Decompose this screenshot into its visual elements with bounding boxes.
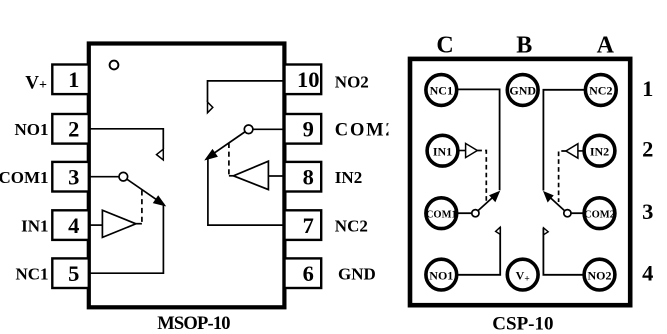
svg-text:4: 4 <box>68 213 79 238</box>
svg-text:A: A <box>597 32 615 58</box>
COM1 pole circle (CSP) <box>472 210 479 217</box>
wire COM1 ball to pole <box>458 212 472 214</box>
NO1 contact (open triangle, CSP) <box>496 227 501 234</box>
package body MSOP-10 <box>89 44 285 308</box>
ball NC1 <box>426 75 457 106</box>
svg-text:9: 9 <box>303 117 314 142</box>
ball NO1 <box>426 259 457 290</box>
svg-text:GND: GND <box>338 265 376 284</box>
package body CSP-10 <box>410 59 630 305</box>
svg-text:1: 1 <box>642 76 653 101</box>
wire pin3 to COM1 pole <box>89 176 119 178</box>
wire NC2 ball to switch <box>543 90 584 191</box>
svg-text:GND: GND <box>509 84 536 98</box>
svg-text:NO2: NO2 <box>588 268 612 282</box>
ball IN1 <box>427 135 458 166</box>
ball COM2 <box>584 198 615 229</box>
NO1 contact (open triangle) <box>157 149 164 160</box>
wire NC1 vertical to pin5 <box>89 204 163 274</box>
svg-text:6: 6 <box>303 261 314 286</box>
svg-text:NC1: NC1 <box>15 265 48 284</box>
ball IN2 <box>584 135 615 166</box>
svg-text:NC2: NC2 <box>589 84 612 98</box>
svg-text:2: 2 <box>68 117 79 142</box>
switch arm CSP right <box>544 192 565 211</box>
svg-text:COM2: COM2 <box>335 120 397 140</box>
svg-text:10: 10 <box>297 67 320 92</box>
ball GND <box>507 75 538 106</box>
svg-text:4: 4 <box>642 261 653 286</box>
svg-text:NC1: NC1 <box>430 84 453 98</box>
svg-text:NC2: NC2 <box>335 217 368 236</box>
pin 4 <box>52 210 89 240</box>
wire pin8 to inverter input <box>268 175 283 177</box>
wire NC1 ball to switch <box>458 89 500 190</box>
control dashed line SW1 <box>136 190 142 223</box>
switch arm CSP left <box>478 192 499 211</box>
svg-text:IN1: IN1 <box>433 144 452 158</box>
pin 1 <box>52 65 89 95</box>
COM1 pole circle <box>119 172 128 181</box>
wire pin2 to NO1 contact stub <box>89 129 163 149</box>
svg-text:MSOP-10: MSOP-10 <box>157 314 230 334</box>
wire NO1 ball to contact <box>458 227 500 275</box>
svg-text:B: B <box>516 32 532 58</box>
svg-text:V+: V+ <box>25 73 47 94</box>
svg-text:NO1: NO1 <box>15 120 49 139</box>
ball NO2 <box>584 259 615 290</box>
pin 8 <box>285 162 322 192</box>
svg-text:8: 8 <box>303 165 314 190</box>
wire NO2 ball to contact <box>543 228 583 275</box>
svg-text:3: 3 <box>68 165 79 190</box>
ball V+ <box>507 259 538 290</box>
svg-text:IN1: IN1 <box>21 216 48 235</box>
svg-text:COM1: COM1 <box>426 209 457 220</box>
pin 10 <box>285 65 322 95</box>
pin 3 <box>52 162 89 192</box>
switch arm SW2 <box>206 132 245 160</box>
svg-text:7: 7 <box>303 213 314 238</box>
pin label COM2 (clipped) <box>335 118 407 142</box>
control dashed line SW2 <box>229 143 234 176</box>
wire pin4 to inverter input <box>89 224 102 226</box>
svg-text:NO1: NO1 <box>429 268 453 282</box>
switch arm SW1 <box>127 179 165 205</box>
ball COM1 <box>426 198 457 229</box>
pin 9 <box>285 114 322 144</box>
inverter at IN2 <box>566 144 583 159</box>
wire COM2 ball to pole <box>571 212 584 214</box>
wire pin10 to NO2 contact stub <box>208 81 284 102</box>
ball NC2 <box>585 75 616 106</box>
pin 2 <box>52 114 89 144</box>
NO2 contact (open triangle) <box>208 102 213 113</box>
pin 7 <box>285 210 322 240</box>
svg-text:CSP-10: CSP-10 <box>492 313 553 334</box>
svg-text:IN2: IN2 <box>590 144 609 158</box>
wire NC2 vertical to pin7 <box>208 157 284 225</box>
svg-text:NO2: NO2 <box>335 73 369 92</box>
svg-text:2: 2 <box>642 137 653 162</box>
NO2 contact (open triangle, CSP) <box>544 228 549 235</box>
COM2 pole circle (CSP) <box>564 210 571 217</box>
svg-text:C: C <box>436 32 453 58</box>
pin 6 <box>285 258 322 288</box>
inverter U1a <box>102 210 135 237</box>
control dashed line IN1 <box>477 151 486 202</box>
svg-text:1: 1 <box>68 67 79 92</box>
inverter U1b <box>233 161 268 189</box>
svg-text:5: 5 <box>68 261 79 286</box>
svg-text:COM1: COM1 <box>0 168 49 187</box>
COM2 pole circle <box>244 125 253 134</box>
inverter at IN1 <box>458 143 477 157</box>
pin 5 <box>52 258 89 288</box>
control dashed line IN2 <box>559 151 566 202</box>
pin-1 indicator circle <box>110 61 119 70</box>
svg-text:3: 3 <box>642 199 653 224</box>
svg-text:COM2: COM2 <box>584 209 615 220</box>
wire pin9 to COM2 pole <box>253 128 283 130</box>
svg-text:IN2: IN2 <box>335 168 362 187</box>
